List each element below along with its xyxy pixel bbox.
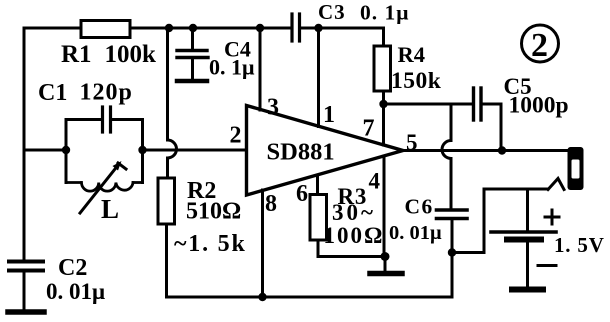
svg-text:2: 2 (531, 27, 548, 64)
svg-text:0. 1μ: 0. 1μ (209, 55, 255, 80)
svg-text:120p: 120p (80, 80, 133, 106)
wire R3 bottom to node (318, 240, 384, 257)
svg-text:C1: C1 (38, 80, 67, 106)
pin label 3 (267, 95, 279, 121)
wire pin7 (382, 104, 385, 145)
resistor R4 (374, 46, 391, 91)
resistor R2 (158, 178, 175, 224)
wire R2 bottom (165, 224, 168, 297)
svg-text:C2: C2 (58, 255, 87, 281)
wire C5 branch (384, 103, 473, 106)
wire left rail (23, 28, 26, 260)
svg-text:1. 5V: 1. 5V (554, 233, 605, 257)
wire output pin5 (403, 149, 568, 152)
node B (tank right) (138, 146, 146, 154)
label C3 0.1u (318, 0, 409, 25)
pin label 6 (296, 181, 308, 207)
label C5 1000p (504, 74, 569, 119)
node pin1 top (314, 24, 322, 32)
earphone (568, 147, 584, 190)
svg-text:2: 2 (230, 123, 242, 149)
svg-text:510Ω: 510Ω (186, 199, 241, 225)
arrow (variable inductor) (80, 161, 126, 213)
ground battery (512, 287, 543, 293)
label R2 510ohm ~1.5k (174, 178, 247, 257)
wire tank to pin2 (143, 149, 247, 152)
svg-text:100k: 100k (105, 41, 157, 68)
node top (R1 right) (165, 24, 173, 32)
wire tank tap (24, 149, 66, 152)
label R1 100k (61, 41, 156, 68)
svg-text:3: 3 (267, 95, 279, 121)
capacitor C3 (292, 14, 300, 41)
label R3 30~100ohm (324, 184, 385, 248)
wire tank sides (66, 120, 143, 183)
capacitor C6 (437, 210, 468, 297)
pin label 5 (406, 130, 418, 155)
label C4 0.1u (209, 37, 255, 80)
wire earphone hook (548, 179, 564, 190)
node pin3 top (256, 24, 264, 32)
node pin4 (381, 252, 390, 261)
label SD881 (267, 139, 335, 166)
pin label 2 (230, 123, 242, 149)
op-amp U1 SD881 (247, 106, 404, 196)
svg-text:4: 4 (369, 169, 381, 194)
capacitor C2 (9, 262, 43, 311)
wire C6 to battery (452, 189, 548, 253)
inductor L (66, 183, 143, 192)
wire hop vertical to R2 (168, 28, 177, 178)
label C6 0.01u (389, 195, 442, 245)
wire pin4 (383, 156, 386, 257)
svg-text:150k: 150k (391, 68, 442, 94)
label battery minus (538, 264, 556, 267)
node A (tank left) (62, 146, 70, 154)
node R4 bottom (379, 100, 387, 108)
label 1.5V (554, 233, 605, 257)
capacitor C5 (474, 88, 502, 151)
label R4 150k (391, 42, 442, 94)
battery B1 1.5V (491, 189, 556, 287)
wire hop to C6 (442, 104, 451, 208)
resistor R3 (310, 195, 327, 241)
ground C2 (8, 309, 44, 315)
svg-text:~1. 5k: ~1. 5k (174, 231, 247, 257)
wire pin8 (261, 190, 264, 297)
circled figure number 2 (522, 25, 559, 64)
svg-text:1: 1 (323, 102, 335, 128)
wire top rail (24, 27, 384, 30)
wire pin3 (259, 28, 262, 110)
svg-text:L: L (101, 194, 119, 224)
capacitor C1 (66, 107, 143, 132)
capacitor C4 (177, 28, 208, 78)
svg-text:0. 1μ: 0. 1μ (360, 1, 409, 25)
label L (101, 194, 119, 224)
resistor R1 (81, 21, 130, 38)
wire pin1 (317, 28, 320, 127)
svg-text:0. 01μ: 0. 01μ (46, 279, 105, 304)
label C1 120p (38, 80, 133, 107)
node C4 top (189, 24, 197, 32)
svg-text:7: 7 (363, 116, 375, 142)
svg-text:C3: C3 (318, 0, 346, 24)
node output (498, 146, 506, 154)
pin label 7 (363, 116, 375, 142)
wire bottom rail (167, 296, 453, 299)
svg-text:R4: R4 (398, 42, 426, 67)
ground C4 (177, 79, 207, 84)
node C6 bottom (448, 248, 456, 256)
wire R4 bottom (382, 91, 385, 104)
pin label 8 (265, 191, 277, 217)
svg-text:30~: 30~ (332, 200, 376, 225)
wire to R4 (382, 28, 385, 46)
pin label 1 (323, 102, 335, 128)
svg-text:R1: R1 (61, 41, 92, 68)
svg-text:8: 8 (265, 191, 277, 217)
svg-text:6: 6 (296, 181, 308, 207)
svg-text:0. 01μ: 0. 01μ (389, 222, 442, 244)
label C2 0.01u (46, 255, 105, 304)
svg-text:1000p: 1000p (509, 93, 569, 119)
wire pin6 (316, 175, 319, 195)
pin label 4 (369, 169, 381, 194)
label battery plus (545, 210, 559, 224)
ground pin4 (370, 257, 402, 274)
svg-text:SD881: SD881 (267, 139, 335, 166)
svg-text:100Ω: 100Ω (324, 223, 385, 248)
node pin8 rail (258, 293, 266, 301)
svg-text:C6: C6 (405, 195, 434, 219)
